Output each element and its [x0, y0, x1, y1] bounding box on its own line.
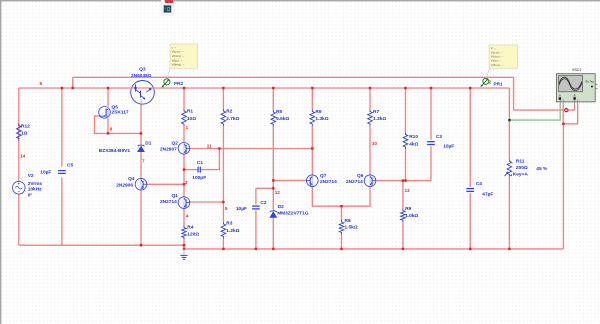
capacitor C5 — [58, 170, 66, 172]
svg-text:C5: C5 — [67, 163, 73, 169]
wire rail to C3 — [430, 88, 432, 140]
resistor R10 — [403, 132, 408, 149]
oscilloscope XSC1 — [556, 74, 595, 102]
potentiometer R11 wiper arrow — [505, 172, 508, 176]
node C2/rail — [255, 248, 257, 250]
svg-text:Q4: Q4 — [128, 176, 135, 182]
svg-text:10kHz: 10kHz — [28, 187, 42, 193]
svg-text:2N2906: 2N2906 — [116, 183, 133, 189]
wire rail to R6 — [311, 88, 313, 110]
wire rail to R10 — [405, 88, 407, 132]
svg-text:10Ω: 10Ω — [187, 116, 196, 122]
svg-text:Q7: Q7 — [320, 173, 327, 179]
wire riser scope B+ — [574, 105, 576, 111]
wire R5 to node 12 — [272, 127, 274, 189]
node top-rail stub — [72, 87, 74, 89]
node 3 junction — [183, 183, 185, 185]
wire bottom rail right (ground net) — [184, 248, 563, 250]
svg-text:D2: D2 — [278, 204, 284, 210]
node scope minus junction — [562, 123, 564, 125]
resistor R3 — [221, 222, 226, 239]
wire Q5 source to node 8 — [107, 118, 109, 133]
svg-text:1.0kΩ: 1.0kΩ — [405, 213, 418, 219]
node R9/rail — [402, 248, 404, 250]
wire node3 to C1 — [184, 169, 198, 171]
svg-text:1.2kΩ: 1.2kΩ — [226, 228, 239, 234]
transistor Q4 2N2906 — [135, 178, 147, 190]
wire R2 to R3 column — [222, 126, 224, 222]
svg-text:R9: R9 — [405, 206, 411, 212]
wire V2 to bottom rail — [18, 194, 20, 245]
wire left rail to Q3 base (net 9) — [19, 87, 131, 89]
svg-text:R11: R11 — [516, 158, 525, 164]
wire C5 column lower — [61, 178, 63, 246]
svg-text:2N6038G: 2N6038G — [131, 73, 152, 79]
wire R11 to bottom rail — [508, 177, 510, 249]
svg-text:V2: V2 — [28, 173, 34, 179]
svg-text:2N2714: 2N2714 — [160, 199, 177, 205]
node C5/rail — [61, 87, 63, 89]
svg-text:1.3kΩ: 1.3kΩ — [373, 116, 386, 122]
svg-text:10µF: 10µF — [40, 170, 51, 176]
svg-text:V(freq): --: V(freq): -- — [491, 63, 504, 67]
node 11 / R6 junction — [311, 147, 313, 149]
node C4/rail — [469, 248, 471, 250]
svg-text:R6: R6 — [315, 109, 321, 115]
wire C5 column upper — [61, 88, 63, 167]
transistor Q6 2N2714 — [364, 175, 376, 187]
transistor Q2 2N2907 — [178, 143, 190, 155]
wire Q3 emitter to D1 — [140, 104, 142, 145]
svg-text:2N2714: 2N2714 — [320, 179, 337, 185]
node green tap junction — [508, 119, 510, 121]
AC source V2 — [12, 181, 25, 194]
svg-text:1.3kΩ: 1.3kΩ — [315, 116, 328, 122]
wire top output rail (net 2) — [73, 76, 514, 78]
node 5 junction — [222, 201, 224, 203]
node R10/rail — [404, 87, 406, 89]
resistor R12 — [17, 124, 22, 141]
wire R6 to Q7 collector — [311, 126, 313, 175]
node R3/rail — [222, 248, 224, 250]
probe data box PR2 — [170, 44, 197, 68]
wire left column upper — [18, 88, 20, 181]
svg-text:V(freq): --: V(freq): -- — [172, 63, 185, 67]
svg-text:A: A — [559, 94, 561, 98]
wire rail to R2 — [222, 88, 224, 109]
resistor R8 — [339, 220, 344, 235]
svg-text:14: 14 — [20, 154, 26, 159]
wire stub to top rail — [72, 77, 74, 88]
wire R3 to bottom rail — [222, 239, 224, 249]
scope ext trig pins — [591, 86, 593, 88]
svg-text:C3: C3 — [436, 134, 442, 140]
wire Q4 down to bottom rail — [140, 190, 142, 245]
resistor R1 — [182, 109, 187, 126]
svg-text:Q3: Q3 — [139, 67, 146, 73]
transistor Q7 2N2714 — [307, 175, 319, 187]
svg-text:47µF: 47µF — [482, 191, 493, 197]
svg-text:R12: R12 — [21, 124, 30, 130]
svg-text:Ext Trig: Ext Trig — [586, 81, 595, 84]
svg-text:Key=A: Key=A — [513, 171, 529, 177]
svg-text:R5: R5 — [276, 109, 282, 115]
svg-text:R7: R7 — [373, 109, 379, 115]
wire C4 to bottom rail — [469, 193, 471, 249]
svg-text:B: B — [574, 94, 576, 98]
svg-text:10µF: 10µF — [236, 206, 247, 212]
svg-text:MM3Z2V7T1G: MM3Z2V7T1G — [277, 210, 309, 216]
resistor R2 — [221, 109, 226, 126]
transistor Q5 2SK117 JFET — [99, 107, 111, 119]
wire rail to R5 — [272, 88, 274, 110]
wire scope negative to bottom rail — [562, 124, 564, 249]
capacitor C3 — [427, 141, 435, 143]
node C1 left junction — [183, 168, 185, 170]
svg-text:10µF: 10µF — [443, 143, 454, 149]
svg-text:R1: R1 — [187, 109, 193, 115]
svg-text:Q5: Q5 — [112, 104, 119, 110]
resistor R4 — [182, 226, 187, 240]
resistor R7 — [368, 110, 373, 127]
node Q7 base junction — [272, 179, 274, 181]
wire to scope channel B+ — [514, 109, 575, 111]
svg-text:PR1: PR1 — [494, 82, 504, 87]
svg-text:R3: R3 — [226, 221, 232, 227]
svg-text:5.6kΩ: 5.6kΩ — [276, 116, 289, 122]
wire bottom rail left (net 14 side) — [19, 244, 184, 246]
node C4/rail — [469, 87, 471, 89]
node Q5 drain/rail — [107, 87, 109, 89]
wire to R8 — [341, 206, 343, 220]
wire node 12 to D2 — [272, 188, 274, 211]
wire rail to R7 — [369, 88, 371, 110]
wire down to R11 — [508, 88, 510, 159]
wire node 13 to R9 — [402, 181, 404, 209]
scope terminal pins — [559, 97, 561, 99]
resistor R6 — [310, 110, 315, 127]
capacitor C2 — [252, 205, 260, 207]
wire R9 to bottom rail — [402, 222, 404, 249]
wire Q5 gate feedback loop — [95, 116, 142, 133]
node D2/rail — [272, 248, 274, 250]
svg-text:R8: R8 — [345, 218, 351, 224]
probe PR2 — [161, 68, 170, 88]
wire node 11 horizontal — [190, 148, 312, 150]
canvas left border — [0, 0, 1, 324]
svg-text:XSC1: XSC1 — [572, 68, 581, 72]
node Q3 emitter junction — [140, 132, 142, 134]
node rail jog upper — [183, 244, 185, 246]
resistor R5 — [271, 110, 276, 127]
svg-text:13: 13 — [405, 188, 411, 193]
svg-text:11: 11 — [207, 143, 212, 148]
svg-text:0°: 0° — [28, 192, 33, 198]
wire node 12 to C2 branch — [256, 187, 273, 189]
node 12 junction — [272, 187, 274, 189]
svg-text:2Vrms: 2Vrms — [28, 181, 43, 187]
svg-text:C2: C2 — [260, 200, 266, 206]
node 13 junction a — [402, 179, 404, 181]
wire scope A- to B- — [563, 105, 578, 124]
floating place-component icon — [161, 0, 173, 15]
svg-text:1.5kΩ: 1.5kΩ — [345, 224, 358, 230]
wire green scope A+ tap — [509, 105, 560, 121]
wire R4 to bottom rail — [183, 240, 185, 246]
node R2/rail — [222, 87, 224, 89]
ground — [180, 249, 187, 259]
svg-text:12: 12 — [275, 190, 281, 195]
wire R1 to Q2 (net 1) — [183, 126, 185, 142]
svg-text:Q6: Q6 — [357, 173, 364, 179]
wire Q6 base to node 13 — [376, 180, 431, 182]
wire Q7/Q6 emitter join — [312, 187, 370, 207]
wire bottom rail jog — [183, 245, 185, 249]
probe data box PR1 — [489, 45, 518, 68]
wire D1 to Q4 (net 7) — [140, 152, 142, 178]
node Q4/bottom rail — [140, 244, 142, 246]
capacitor C4 — [466, 188, 474, 190]
capacitor C1 — [197, 167, 199, 173]
svg-text:120Ω: 120Ω — [187, 232, 199, 238]
svg-text:2.7kΩ: 2.7kΩ — [226, 116, 239, 122]
svg-text:1Ω: 1Ω — [21, 131, 28, 137]
svg-text:4kΩ: 4kΩ — [409, 141, 418, 147]
potentiometer R11 — [507, 159, 512, 176]
wire C3 to node 13 — [430, 146, 432, 180]
wire rail to R1 — [183, 88, 185, 109]
svg-text:2SK117: 2SK117 — [112, 110, 129, 116]
probe PR1 — [480, 68, 489, 87]
wire C2 upper — [255, 188, 257, 204]
svg-text:BZX384-B9V1: BZX384-B9V1 — [99, 148, 131, 154]
svg-text:100pF: 100pF — [192, 175, 206, 181]
svg-text:Q2: Q2 — [172, 140, 179, 146]
wire C2 to bottom rail — [255, 211, 257, 249]
node R6/rail — [311, 87, 313, 89]
wire R10 to node 13 — [405, 149, 407, 181]
wire collector rail Q3 to right (net 6) — [154, 87, 509, 89]
wire top rail down to scope B — [513, 77, 515, 110]
resistor R9 — [401, 209, 406, 223]
transistor Q3 2N6038G — [131, 81, 155, 105]
wire D2 to bottom rail — [272, 217, 274, 249]
wire node 12 to Q7 base — [273, 179, 306, 181]
svg-text:C4: C4 — [476, 181, 482, 187]
svg-text:R10: R10 — [409, 134, 418, 140]
wire R8 to bottom rail — [341, 235, 343, 249]
node rail jog lower — [183, 248, 185, 250]
canvas top border — [0, 0, 600, 1]
wire C1 riser to node 11 — [201, 149, 220, 170]
wire Q1 emitter to node 5 — [190, 201, 223, 203]
wire Q1 to R4 (net 4) — [183, 209, 185, 226]
svg-text:10: 10 — [372, 141, 378, 146]
node R8 junction — [340, 205, 342, 207]
node R8/rail — [340, 248, 342, 250]
wire rail to C4 — [469, 88, 471, 187]
svg-text:2N2907: 2N2907 — [160, 147, 177, 153]
transistor Q1 2N2714 — [178, 197, 190, 209]
node R5/rail — [272, 87, 274, 89]
node 8 junction — [107, 132, 109, 134]
node 11 / C1 junction — [218, 147, 220, 149]
svg-text:2N2714: 2N2714 — [346, 179, 363, 185]
wire Q5 drain — [107, 88, 109, 107]
node R1/rail — [183, 87, 185, 89]
node R11/rail — [508, 248, 510, 250]
svg-text:200Ω: 200Ω — [516, 165, 528, 171]
zener diode D2 — [269, 211, 277, 218]
node C3/rail — [430, 87, 432, 89]
reversed polarity indicator — [564, 108, 568, 112]
wire Q4 emitter to node 3 — [147, 183, 184, 185]
svg-text:Q1: Q1 — [172, 193, 179, 199]
svg-text:R2: R2 — [226, 109, 232, 115]
svg-text:D1: D1 — [145, 141, 151, 147]
wire Q2 to Q1 (net 3) — [183, 154, 185, 197]
zener diode D1 — [137, 145, 145, 152]
wire R7 to Q6 collector (net 10) — [369, 126, 371, 175]
node 13 junction b — [404, 179, 406, 181]
svg-text:R4: R4 — [187, 225, 193, 231]
svg-text:45 %: 45 % — [536, 166, 548, 172]
node R7/rail — [369, 87, 371, 89]
svg-text:C1: C1 — [197, 160, 203, 166]
svg-text:PR2: PR2 — [174, 81, 184, 86]
